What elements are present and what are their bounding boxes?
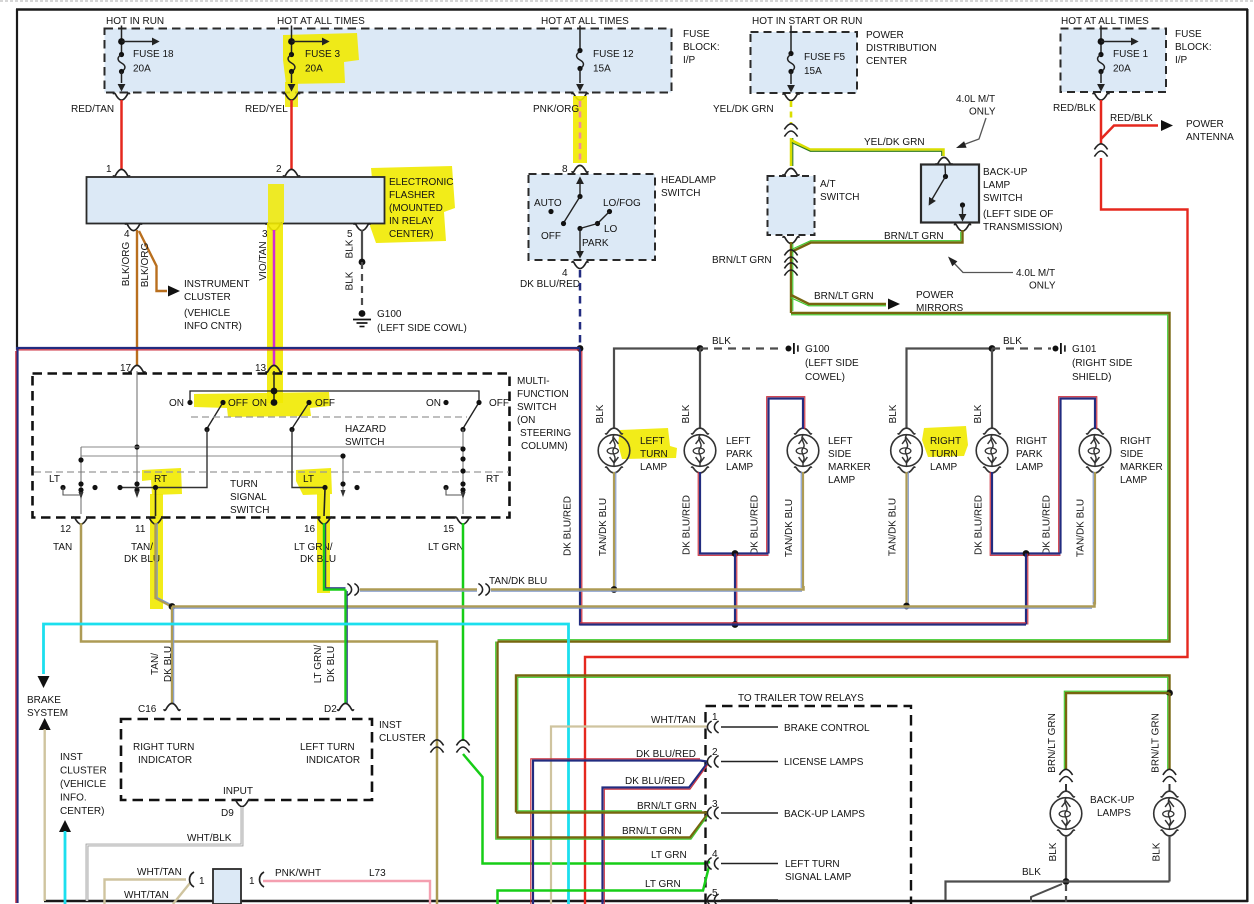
wire DK BLU/RED drop to license bus <box>734 554 736 626</box>
svg-text:HOT IN START OR RUN: HOT IN START OR RUN <box>752 16 862 27</box>
wire BLK/ORG pin4 down to MFS pin 17 <box>136 230 138 366</box>
power distribution center fuse box <box>751 32 858 93</box>
svg-text:OFF: OFF <box>315 398 335 409</box>
svg-text:G100: G100 <box>377 309 402 320</box>
fuse F5 <box>787 26 845 93</box>
svg-text:BACK-UP: BACK-UP <box>983 167 1028 178</box>
lamp BACK-UP LAMP left <box>1050 791 1082 836</box>
wire WHT/TAN stub down <box>44 729 46 901</box>
connector at back-up lamp switch <box>936 157 952 164</box>
svg-text:8: 8 <box>562 164 568 175</box>
svg-text:HOT IN RUN: HOT IN RUN <box>106 16 164 27</box>
svg-text:LO: LO <box>604 224 618 235</box>
svg-text:RIGHT: RIGHT <box>930 436 961 447</box>
svg-text:BRN/LT GRN: BRN/LT GRN <box>814 291 874 302</box>
svg-text:LT: LT <box>49 474 60 485</box>
svg-text:SWITCH: SWITCH <box>230 505 269 516</box>
wire RED/YEL fuse3 to flasher pin 2 <box>290 100 293 170</box>
pin 15 <box>455 517 471 524</box>
wire LT GRN/DK BLU drop to D2 <box>344 590 346 704</box>
svg-text:DK BLU/RED: DK BLU/RED <box>636 749 696 760</box>
svg-text:I/P: I/P <box>683 55 696 66</box>
junction dot <box>359 259 366 266</box>
hazard section 3: OFF contact and lever <box>476 400 481 405</box>
svg-text:WHT/TAN: WHT/TAN <box>124 890 169 901</box>
pin D9 <box>234 800 250 807</box>
frame left <box>16 9 18 350</box>
svg-text:(VEHICLE: (VEHICLE <box>184 308 230 319</box>
svg-text:TAN: TAN <box>53 542 72 553</box>
svg-text:TURN: TURN <box>640 449 668 460</box>
gray line B <box>81 455 343 457</box>
svg-text:LAMP: LAMP <box>828 475 856 486</box>
svg-text:PNK/ORG: PNK/ORG <box>533 104 579 115</box>
lamp LEFT TURN LAMP <box>598 428 630 473</box>
headlamp switch internals <box>534 177 641 258</box>
svg-text:YEL/DK GRN: YEL/DK GRN <box>713 104 774 115</box>
lamp RIGHT TURN LAMP <box>891 428 923 473</box>
svg-text:WHT/TAN: WHT/TAN <box>137 867 182 878</box>
svg-text:DK BLU/RED: DK BLU/RED <box>563 496 574 556</box>
svg-text:TO TRAILER TOW RELAYS: TO TRAILER TOW RELAYS <box>738 693 864 704</box>
svg-text:BLK: BLK <box>681 404 692 423</box>
highlight band on VIO/TAN wire down to MFS pin 13 <box>267 223 283 403</box>
svg-text:DK BLU/RED: DK BLU/RED <box>625 776 685 787</box>
right mid stack <box>342 456 344 490</box>
svg-text:BRAKE: BRAKE <box>27 695 61 706</box>
svg-text:HOT AT ALL TIMES: HOT AT ALL TIMES <box>1061 16 1149 27</box>
svg-text:ELECTRONIC: ELECTRONIC <box>389 177 453 188</box>
wire BRN/LT GRN to pin 3 upper <box>516 676 1170 813</box>
wire VIO/TAN pin3 to MFS pin 13 <box>273 230 276 366</box>
svg-text:SIGNAL LAMP: SIGNAL LAMP <box>785 872 852 883</box>
inline connector on TAN <box>430 740 443 753</box>
svg-text:C16: C16 <box>138 704 157 715</box>
svg-text:FUSE 1: FUSE 1 <box>1113 49 1148 60</box>
svg-text:HOT AT ALL TIMES: HOT AT ALL TIMES <box>277 16 365 27</box>
highlight band on RED/YEL wire below fuse 3 <box>285 82 298 107</box>
wire LT GRN pin 15 down <box>462 523 465 741</box>
svg-text:A/T: A/T <box>820 179 836 190</box>
svg-text:DK BLU/RED: DK BLU/RED <box>750 495 761 555</box>
wire LT contact to pin 16 <box>324 489 325 516</box>
svg-text:COLUMN): COLUMN) <box>521 441 568 452</box>
hazard switch bus line <box>190 391 479 403</box>
arrow to power antenna <box>1161 120 1173 131</box>
fuse block I/P (left, contains FUSE 18, FUSE 3, FUSE 12) <box>105 29 672 93</box>
junction dot on bus2 <box>903 603 910 610</box>
S3 stack <box>462 429 464 514</box>
wire TAN/DK BLU bus2 to right lamps <box>172 602 1095 607</box>
lamp LEFT PARK LAMP <box>684 428 716 473</box>
highlight blob RT <box>142 468 182 495</box>
wire DK BLU/RED vertical to lamp bus <box>579 349 581 626</box>
svg-text:SIDE: SIDE <box>1120 449 1144 460</box>
svg-text:SWITCH: SWITCH <box>345 437 384 448</box>
back-up lamp switch internals <box>926 165 966 222</box>
junction dot <box>577 345 584 352</box>
S2 lever leg to LT contact <box>292 430 325 488</box>
junction dot <box>732 550 739 557</box>
svg-text:WHT/BLK: WHT/BLK <box>187 833 232 844</box>
svg-text:CLUSTER: CLUSTER <box>184 292 231 303</box>
svg-text:(RIGHT SIDE: (RIGHT SIDE <box>1072 358 1133 369</box>
svg-text:LT GRN/: LT GRN/ <box>313 645 324 684</box>
svg-text:20A: 20A <box>1113 64 1131 75</box>
svg-text:RED/BLK: RED/BLK <box>1053 103 1096 114</box>
wire DK BLU/RED left park lamp down <box>700 472 769 554</box>
svg-text:4.0L M/T: 4.0L M/T <box>1016 268 1055 279</box>
left contact stack <box>80 447 82 514</box>
wire DK BLU/RED horizontal to left frame <box>16 347 580 349</box>
svg-text:IN RELAY: IN RELAY <box>389 216 434 227</box>
svg-text:YEL/DK GRN: YEL/DK GRN <box>864 137 925 148</box>
wire LT GRN to pin 4 lower <box>498 867 710 904</box>
arrow to instrument cluster <box>168 286 180 297</box>
inline connector right <box>1163 769 1176 782</box>
inline connector on bus1 <box>478 584 489 596</box>
inline connector left <box>1059 769 1072 782</box>
wire PNK/WHT L73 <box>263 881 430 904</box>
wire TAN/DK BLU left marker down <box>802 472 804 588</box>
svg-text:ONLY: ONLY <box>1029 281 1056 292</box>
svg-text:ON: ON <box>252 398 267 409</box>
wire BLK right turn lamp to junction <box>907 349 993 430</box>
trailer tow relays box <box>706 706 912 904</box>
svg-text:INST: INST <box>60 752 83 763</box>
svg-text:LT GRN: LT GRN <box>645 879 681 890</box>
ground G100 <box>786 343 798 354</box>
svg-text:FUSE: FUSE <box>683 29 710 40</box>
svg-text:BRN/LT GRN: BRN/LT GRN <box>622 826 682 837</box>
wire DK BLU/RED to pin 2 upper <box>533 761 707 904</box>
top hairline <box>0 0 1254 2</box>
svg-text:BACK-UP LAMPS: BACK-UP LAMPS <box>784 809 865 820</box>
svg-text:DISTRIBUTION: DISTRIBUTION <box>866 43 937 54</box>
svg-text:DK BLU: DK BLU <box>300 554 336 565</box>
svg-text:BLK/ORG: BLK/ORG <box>121 242 132 287</box>
highlight band inside flasher over pin 3 <box>268 184 284 223</box>
svg-text:BACK-UP: BACK-UP <box>1090 795 1135 806</box>
svg-text:SIGNAL: SIGNAL <box>230 492 267 503</box>
pin 11 <box>147 517 163 524</box>
svg-text:PARK: PARK <box>1016 449 1043 460</box>
svg-text:16: 16 <box>304 524 316 535</box>
wire BLK dashed to G101 <box>992 347 1051 349</box>
svg-text:LEFT TURN: LEFT TURN <box>300 742 355 753</box>
svg-text:RED/YEL: RED/YEL <box>245 104 288 115</box>
wire RED/TAN fuse18 to flasher pin 1 <box>120 100 123 170</box>
svg-text:RED/BLK: RED/BLK <box>1110 113 1153 124</box>
svg-text:TURN: TURN <box>930 449 958 460</box>
svg-text:5: 5 <box>347 229 353 240</box>
arrow down to brake system <box>38 676 50 688</box>
svg-text:CLUSTER: CLUSTER <box>379 733 426 744</box>
junction dot <box>1023 550 1030 557</box>
svg-text:LT GRN: LT GRN <box>651 850 687 861</box>
svg-text:COWEL): COWEL) <box>805 372 845 383</box>
wire DK BLU/RED down left edge <box>16 349 18 903</box>
svg-text:DK BLU/RED: DK BLU/RED <box>1042 495 1053 555</box>
highlight band pin 11 wire <box>150 494 163 609</box>
wire TAN/DK BLU right turn lamp down <box>905 472 907 606</box>
wire BLK pin 5 to ground <box>361 230 363 262</box>
lamp LEFT SIDE MARKER LAMP <box>787 428 819 473</box>
svg-text:RIGHT TURN: RIGHT TURN <box>133 742 194 753</box>
svg-text:RED/TAN: RED/TAN <box>71 104 114 115</box>
svg-text:BLK: BLK <box>345 239 356 258</box>
junction dot <box>1063 878 1070 885</box>
svg-text:LEFT: LEFT <box>640 436 664 447</box>
connector below fuse F5 <box>783 94 799 101</box>
wire RT contact to pin 11 <box>155 489 157 516</box>
svg-text:LAMP: LAMP <box>726 462 754 473</box>
svg-text:BLK: BLK <box>973 404 984 423</box>
svg-text:1: 1 <box>199 876 205 887</box>
svg-text:SWITCH: SWITCH <box>517 402 556 413</box>
svg-text:TRANSMISSION): TRANSMISSION) <box>983 222 1062 233</box>
wire BLK dashed to G100 <box>700 347 784 349</box>
arrow up from inst cluster wire <box>39 718 51 730</box>
connector below fuse 1 <box>1093 93 1109 100</box>
fuse F3 <box>288 26 341 92</box>
highlight band pin 16 wire <box>317 494 330 593</box>
pin 5 <box>354 224 370 231</box>
svg-text:BRN/LT GRN: BRN/LT GRN <box>637 801 697 812</box>
svg-text:ON: ON <box>169 398 184 409</box>
svg-text:DK BLU/RED: DK BLU/RED <box>520 279 580 290</box>
frame right <box>1246 9 1248 902</box>
svg-text:LEFT: LEFT <box>726 436 750 447</box>
inst cluster box <box>121 719 372 800</box>
svg-text:DK BLU/RED: DK BLU/RED <box>974 495 985 555</box>
svg-text:LAMP: LAMP <box>1120 475 1148 486</box>
svg-text:BRN/LT GRN: BRN/LT GRN <box>1151 713 1162 773</box>
svg-text:20A: 20A <box>305 64 323 75</box>
back-up lamp switch box <box>921 165 979 223</box>
wire DK BLU/RED to pin 2 lower <box>603 764 708 904</box>
svg-text:11: 11 <box>135 524 146 535</box>
svg-text:VIO/TAN: VIO/TAN <box>258 241 269 280</box>
wire DK BLU/RED license bus <box>580 623 1026 625</box>
wire BLK park lamp <box>699 349 701 430</box>
inline connector <box>1094 144 1107 157</box>
svg-text:15: 15 <box>443 524 455 535</box>
svg-text:SWITCH: SWITCH <box>820 192 859 203</box>
wire BLK right lamp down <box>1168 836 1170 882</box>
svg-text:BRAKE CONTROL: BRAKE CONTROL <box>784 723 870 734</box>
wire BLK dashed below junction <box>1065 884 1067 902</box>
svg-text:INST: INST <box>379 720 402 731</box>
svg-text:MULTI-: MULTI- <box>517 376 550 387</box>
dashed separator lower <box>34 471 509 473</box>
svg-text:LAMP: LAMP <box>1016 462 1044 473</box>
connector below back-up lamp switch <box>954 224 970 231</box>
svg-text:2: 2 <box>276 164 282 175</box>
svg-text:DK BLU: DK BLU <box>326 646 337 682</box>
wire BLK bus <box>946 882 1170 901</box>
svg-text:4: 4 <box>562 268 568 279</box>
arrow to power mirrors <box>888 299 900 310</box>
wire WHT/TAN to connector 1 <box>105 880 187 904</box>
svg-text:TAN/DK BLU: TAN/DK BLU <box>1076 499 1087 557</box>
highlight RIGHT TURN label <box>922 426 968 457</box>
svg-text:D9: D9 <box>221 808 234 819</box>
junction dot on bus1 <box>611 586 618 593</box>
highlight LEFT TURN label <box>618 428 677 459</box>
ground G100 (left side cowl) <box>353 310 371 326</box>
svg-text:SIDE: SIDE <box>828 449 852 460</box>
pin 13 wire into hazard switch <box>273 371 275 403</box>
svg-text:BRN/LT GRN: BRN/LT GRN <box>1047 713 1058 773</box>
svg-text:OFF: OFF <box>228 398 248 409</box>
fuse F18 <box>118 26 174 92</box>
svg-text:15A: 15A <box>804 66 822 77</box>
svg-text:RIGHT: RIGHT <box>1016 436 1047 447</box>
junction dot on license bus <box>732 621 739 628</box>
connector below fuse 12 <box>572 93 588 100</box>
svg-text:INFO.: INFO. <box>60 793 87 804</box>
wire WHT/TAN diagonal <box>173 883 190 904</box>
S1 lever leg <box>120 430 207 488</box>
svg-text:FUSE 12: FUSE 12 <box>593 49 634 60</box>
highlight over FUSE 3 <box>283 33 359 84</box>
fuse F12 <box>576 26 634 92</box>
svg-text:PARK: PARK <box>582 238 609 249</box>
svg-text:4.0L M/T: 4.0L M/T <box>956 94 995 105</box>
svg-text:SWITCH: SWITCH <box>661 188 700 199</box>
inline connector on bus1 <box>347 584 358 596</box>
highlight blob over OFF ON OFF hazard row <box>194 392 330 417</box>
wire BRN/LT GRN branch to left back-up lamp <box>1066 693 1170 770</box>
junction dot <box>697 345 704 352</box>
wire TAN/DK BLU left turn lamp down <box>613 472 615 590</box>
dashed separator upper <box>191 416 467 418</box>
svg-text:POWER: POWER <box>1186 119 1224 130</box>
svg-text:12: 12 <box>60 524 72 535</box>
wire TAN/DK BLU right marker down <box>1094 472 1096 605</box>
inline connector <box>784 124 797 137</box>
svg-text:LEFT: LEFT <box>828 436 852 447</box>
wire BRN/LT GRN down to right back-up lamp <box>1168 693 1170 770</box>
svg-text:INPUT: INPUT <box>223 786 253 797</box>
svg-text:RIGHT: RIGHT <box>1120 436 1151 447</box>
svg-text:4: 4 <box>124 229 130 240</box>
svg-text:LAMP: LAMP <box>983 180 1011 191</box>
svg-text:SWITCH: SWITCH <box>983 193 1022 204</box>
svg-text:HEADLAMP: HEADLAMP <box>661 175 716 186</box>
wire BRN/LT GRN from back-up switch to A/T column <box>791 230 963 252</box>
svg-text:POWER: POWER <box>916 290 954 301</box>
svg-text:BLK/ORG: BLK/ORG <box>140 243 151 288</box>
svg-text:INSTRUMENT: INSTRUMENT <box>184 279 250 290</box>
wire BRN/LT GRN branch to power mirrors <box>791 295 886 304</box>
svg-text:D2: D2 <box>324 704 337 715</box>
svg-text:BRN/LT GRN: BRN/LT GRN <box>712 255 772 266</box>
headlamp switch box <box>529 174 656 260</box>
svg-text:OFF: OFF <box>541 231 561 242</box>
wire PNK/ORG fuse12 to headlamp switch pin 8 <box>579 101 582 163</box>
svg-text:BLK: BLK <box>1003 336 1022 347</box>
svg-text:(VEHICLE: (VEHICLE <box>60 779 106 790</box>
svg-text:BLOCK:: BLOCK: <box>683 42 720 53</box>
arrow up cyan stub <box>59 820 71 832</box>
pin 16 <box>316 517 332 524</box>
svg-text:PNK/WHT: PNK/WHT <box>275 868 321 879</box>
wire TAN pin 12 down and right <box>81 523 437 904</box>
inline connector <box>784 263 797 276</box>
wire DK BLU/RED right park lamp down <box>992 472 1061 554</box>
frame top <box>16 8 1248 10</box>
svg-text:TAN/DK BLU: TAN/DK BLU <box>784 499 795 557</box>
electronic flasher box <box>87 177 385 224</box>
connector block C1 <box>213 869 241 904</box>
ground G101 <box>1053 343 1065 354</box>
wire WHT/BLK from D9 <box>87 807 242 901</box>
svg-text:TAN/: TAN/ <box>131 542 153 553</box>
fuse F1 <box>1097 26 1148 92</box>
svg-text:MARKER: MARKER <box>828 462 871 473</box>
wire BLK left turn lamp to junction <box>614 349 700 430</box>
svg-text:ANTENNA: ANTENNA <box>1186 132 1234 143</box>
svg-text:1: 1 <box>106 164 112 175</box>
svg-text:FUSE: FUSE <box>1175 29 1202 40</box>
multi-function switch box <box>33 374 510 518</box>
svg-text:15A: 15A <box>593 64 611 75</box>
wire YEL/DK GRN branch to back-up lamp switch <box>791 140 944 156</box>
connector ( 1 <box>190 872 195 887</box>
wire BRN/LT GRN to pin 3 lower <box>498 642 708 838</box>
wire YEL/DK GRN dashed <box>790 101 793 124</box>
svg-text:MARKER: MARKER <box>1120 462 1163 473</box>
svg-text:BLK: BLK <box>595 404 606 423</box>
wire BLK right park lamp <box>991 349 993 430</box>
svg-text:CENTER: CENTER <box>866 56 907 67</box>
svg-text:INDICATOR: INDICATOR <box>138 755 192 766</box>
svg-text:SHIELD): SHIELD) <box>1072 372 1111 383</box>
svg-text:PARK: PARK <box>726 449 753 460</box>
svg-text:LICENSE LAMPS: LICENSE LAMPS <box>784 757 864 768</box>
svg-text:LT GRN/: LT GRN/ <box>294 542 333 553</box>
svg-text:(ON: (ON <box>517 415 535 426</box>
svg-text:(LEFT SIDE COWL): (LEFT SIDE COWL) <box>377 323 467 334</box>
svg-text:L73: L73 <box>369 868 386 879</box>
svg-text:TAN/DK BLU: TAN/DK BLU <box>598 498 609 556</box>
svg-text:LEFT TURN: LEFT TURN <box>785 859 840 870</box>
svg-text:STEERING: STEERING <box>520 428 571 439</box>
wire RED/BLK down <box>1100 100 1103 144</box>
svg-text:LO/FOG: LO/FOG <box>603 198 641 209</box>
svg-text:INDICATOR: INDICATOR <box>306 755 360 766</box>
svg-text:(LEFT SIDE: (LEFT SIDE <box>805 358 859 369</box>
wire TAN/DK BLU drop to C16 <box>171 607 173 704</box>
svg-text:POWER: POWER <box>866 30 904 41</box>
pin 17 sense line <box>136 371 138 490</box>
svg-text:BRN/LT GRN: BRN/LT GRN <box>884 231 944 242</box>
wire DK BLU/RED right marker loop <box>1061 399 1096 554</box>
junction dot BRN/LT GRN <box>1166 690 1173 697</box>
svg-text:FUSE 3: FUSE 3 <box>305 49 340 60</box>
gray line A <box>81 446 463 448</box>
wire WHT/TAN to pin 1 <box>551 727 708 904</box>
svg-text:BLK: BLK <box>888 404 899 423</box>
hazard section 1: OFF contact and lever <box>220 400 225 405</box>
inline connector <box>784 250 797 263</box>
svg-text:FLASHER: FLASHER <box>389 190 435 201</box>
pin 4 <box>125 224 141 231</box>
wire TAN/DK BLU bus1 to left lamps <box>491 586 804 590</box>
svg-text:ONLY: ONLY <box>969 107 996 118</box>
